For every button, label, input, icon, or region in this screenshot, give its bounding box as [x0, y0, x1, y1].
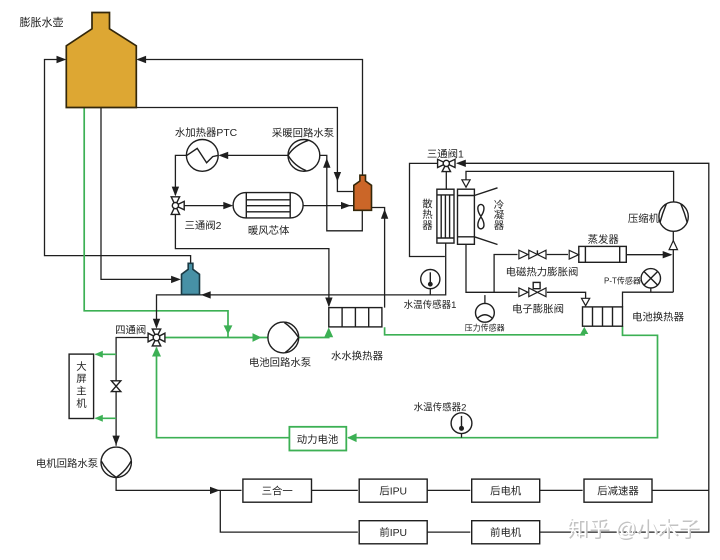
svg-text:采暖回路水泵: 采暖回路水泵: [272, 126, 334, 139]
arrow into suction junction: [663, 251, 673, 258]
svg-text:蒸发器: 蒸发器: [588, 233, 620, 246]
arrow into heater core left: [223, 202, 233, 209]
wire valve2 bottom to water-water exchanger top-left: [175, 215, 329, 307]
svg-text:散: 散: [422, 197, 433, 210]
wire row1 connector 三合一 to 后IPU: [312, 489, 358, 491]
svg-text:机: 机: [76, 397, 87, 410]
green arrow up into 4-way valve bottom: [152, 347, 161, 357]
hollow arrow into chiller top: [582, 298, 590, 305]
arrow on that wire: [341, 202, 351, 209]
green wire chiller bottom-right to power battery: [348, 326, 658, 437]
arrow into motor pump top: [112, 436, 119, 446]
svg-text:三通阀1: 三通阀1: [427, 147, 464, 160]
green arrow up into chiller bottom: [580, 327, 588, 334]
svg-text:后IPU: 后IPU: [379, 485, 407, 497]
check valve before evaporator: [569, 250, 578, 259]
svg-text:水加热器PTC: 水加热器PTC: [175, 126, 238, 139]
box 前电机: [472, 521, 540, 544]
box 后减速器: [584, 479, 652, 502]
hollow arrow up to compressor: [669, 241, 677, 250]
svg-text:压缩机: 压缩机: [628, 212, 660, 225]
P-T sensor: [641, 269, 660, 293]
svg-text:前IPU: 前IPU: [379, 526, 407, 539]
hollow arrow into condenser top: [462, 180, 470, 187]
wire row1 connector 后电机 to 后减速器: [540, 489, 583, 491]
wire main mid line radiator bottom to 4-way valve: [157, 243, 446, 327]
wire chiller top-right return to compressor suction: [623, 292, 674, 307]
svg-text:后减速器: 后减速器: [597, 485, 639, 497]
wire top right corner to valve1 right: [458, 163, 709, 490]
water temp sensor 2 水温传感器2: [451, 413, 472, 438]
wire row2 connector 前IPU to 前电机: [427, 531, 470, 533]
green wire ww-exchanger bottom-right to chiller bottom-left: [385, 327, 585, 335]
arrow into expansion tank left: [57, 56, 67, 63]
arrow into valve1 right: [456, 160, 466, 167]
svg-text:水温传感器1: 水温传感器1: [404, 299, 457, 311]
svg-text:电池回路水泵: 电池回路水泵: [249, 356, 311, 369]
condenser 冷凝器: [458, 188, 498, 245]
wire motor pump bottom to drive row: [116, 477, 241, 490]
arrow left near blue bottle: [201, 291, 211, 298]
arrow into exchanger top: [325, 298, 332, 308]
svg-text:前电机: 前电机: [490, 526, 522, 539]
svg-text:器: 器: [494, 220, 505, 232]
4-way valve 四通阀: [148, 329, 165, 346]
green stub to screen-host top: [96, 353, 117, 355]
wire heating pump to PTC heater: [220, 154, 288, 156]
svg-text:水温传感器2: 水温传感器2: [414, 401, 467, 413]
power battery box 动力电池: [289, 427, 346, 451]
PTC heater circle 水加热器PTC: [186, 140, 218, 172]
arrow into PTC heater right: [218, 152, 228, 159]
box 后电机: [472, 479, 540, 502]
pressure sensor 压力传感器: [476, 295, 495, 322]
svg-text:四通阀: 四通阀: [115, 323, 146, 336]
green arrow into power battery right: [347, 433, 356, 442]
wire vent line blue-bottle to expansion-tank left inlet: [45, 60, 191, 264]
water-water exchanger 水水换热器: [329, 308, 382, 327]
green arrow before battery pump: [253, 333, 262, 342]
wire row2 前电机 to right edge: [540, 490, 709, 532]
battery pump 电池回路水泵: [268, 322, 299, 353]
svg-text:电子膨胀阀: 电子膨胀阀: [512, 303, 564, 316]
svg-text:后电机: 后电机: [490, 484, 522, 497]
wire heater core right to heater bottle: [303, 205, 354, 207]
3-way valve 2 (vertical): [171, 197, 184, 215]
expansion tank 膨胀水壶: [66, 13, 136, 108]
svg-text:屏: 屏: [76, 373, 86, 385]
wire evaporator right to compressor suction junction: [626, 254, 671, 256]
svg-text:P-T传感器: P-T传感器: [604, 275, 641, 285]
svg-text:压力传感器: 压力传感器: [465, 322, 505, 332]
svg-text:大: 大: [76, 360, 86, 373]
wire radiator bypass valve1 left: [410, 163, 445, 256]
arrow into expansion tank right: [136, 56, 146, 63]
svg-text:知乎 @小木子: 知乎 @小木子: [567, 518, 699, 541]
green wire expansion tank down to battery loop: [84, 108, 228, 338]
radiator 散热器: [437, 189, 454, 243]
wire valve2 right to heater core: [184, 205, 232, 207]
wire 4-way valve left to motor pump: [116, 338, 148, 446]
arrow down on that wire: [334, 172, 341, 182]
arrow into blue bottle left: [171, 276, 181, 283]
evaporator 蒸发器: [579, 246, 627, 262]
wire condenser bottom to liquid line: [466, 244, 518, 292]
green wire 4-way valve right to battery pump: [165, 337, 268, 339]
wire compressor top to condenser top: [466, 171, 674, 202]
wire expansion tank bottom to blue bottle left: [101, 108, 179, 280]
green stub to screen-host bottom: [96, 417, 117, 419]
svg-text:膨胀水壶: 膨胀水壶: [20, 15, 64, 29]
svg-text:三通阀2: 三通阀2: [185, 219, 222, 232]
green arrow into screen-host top: [95, 351, 103, 358]
heater loop bottle (orange): [354, 175, 372, 210]
wire compressor suction down leg: [672, 231, 674, 292]
box 后IPU: [359, 479, 427, 502]
green wire battery pump to ww-exchanger bottom: [299, 331, 329, 338]
svg-text:三合一: 三合一: [262, 484, 293, 497]
wire electronic exp valve line to chiller top: [547, 292, 586, 298]
thermal expansion valve 电磁热力膨胀阀: [519, 250, 546, 259]
wire expansion tank bottom-right to heater bottle left: [136, 108, 353, 192]
heater core 暖风芯体: [233, 193, 303, 218]
battery chiller 电池换热器: [583, 307, 623, 326]
wire heater bottle bottom loop to heating pump inlet: [320, 155, 362, 230]
svg-text:冷: 冷: [494, 198, 504, 211]
blue degas bottle: [182, 263, 200, 294]
PTC zigzag: [187, 148, 218, 162]
compressor 压缩机: [659, 202, 688, 231]
wire row1 connector 后IPU to 后电机: [427, 489, 470, 491]
svg-text:电磁热力膨胀阀: 电磁热力膨胀阀: [506, 266, 579, 279]
svg-text:凝: 凝: [494, 210, 505, 222]
svg-text:电池换热器: 电池换热器: [632, 310, 685, 323]
svg-text:热: 热: [422, 208, 433, 221]
box 三合一: [243, 479, 312, 502]
wire row1 后减速器 to right edge: [652, 489, 709, 491]
water temp sensor 1 水温传感器1: [421, 270, 440, 295]
heating pump 采暖回路水泵: [288, 140, 320, 172]
box 前IPU: [359, 521, 427, 544]
svg-text:动力电池: 动力电池: [297, 433, 339, 446]
wire liquid line branch up to thermal expansion valve line: [494, 255, 517, 293]
wire exchanger top-right up to heater bottle right: [372, 208, 385, 308]
wire branch down to front row: [220, 490, 357, 532]
green arrow up into ww-exchanger: [324, 327, 333, 337]
shutoff valve on motor line: [111, 381, 120, 392]
svg-text:水水换热器: 水水换热器: [331, 349, 384, 362]
arrow into valve2 top: [172, 187, 179, 197]
motor pump 电机回路水泵: [101, 447, 131, 477]
wire between exp valve and check valve to evaporator: [547, 254, 568, 256]
wire heater-bottle to expansion-tank right inlet: [138, 60, 363, 176]
green arrow down on riser x228: [224, 325, 233, 334]
electronic expansion valve 电子膨胀阀: [519, 282, 546, 296]
arrow up into heating pump: [323, 158, 330, 168]
arrow up near heater bottle: [381, 209, 388, 219]
svg-text:器: 器: [422, 220, 433, 232]
3-way valve 1 (horizontal): [438, 159, 455, 171]
arrow on drive row line: [210, 487, 220, 494]
arrow down into 4-way valve top: [153, 319, 160, 329]
green wire power battery to 4-way valve bottom: [157, 348, 289, 438]
svg-text:暖风芯体: 暖风芯体: [248, 224, 290, 237]
svg-text:主: 主: [76, 386, 86, 398]
wire PTC heater left down to 3-way valve 2: [175, 155, 186, 195]
screen host box 大屏主机: [69, 354, 94, 418]
wire valve1 bottom to radiator top: [445, 171, 447, 189]
svg-text:电机回路水泵: 电机回路水泵: [36, 457, 98, 470]
green arrow into screen-host bottom: [95, 415, 103, 422]
